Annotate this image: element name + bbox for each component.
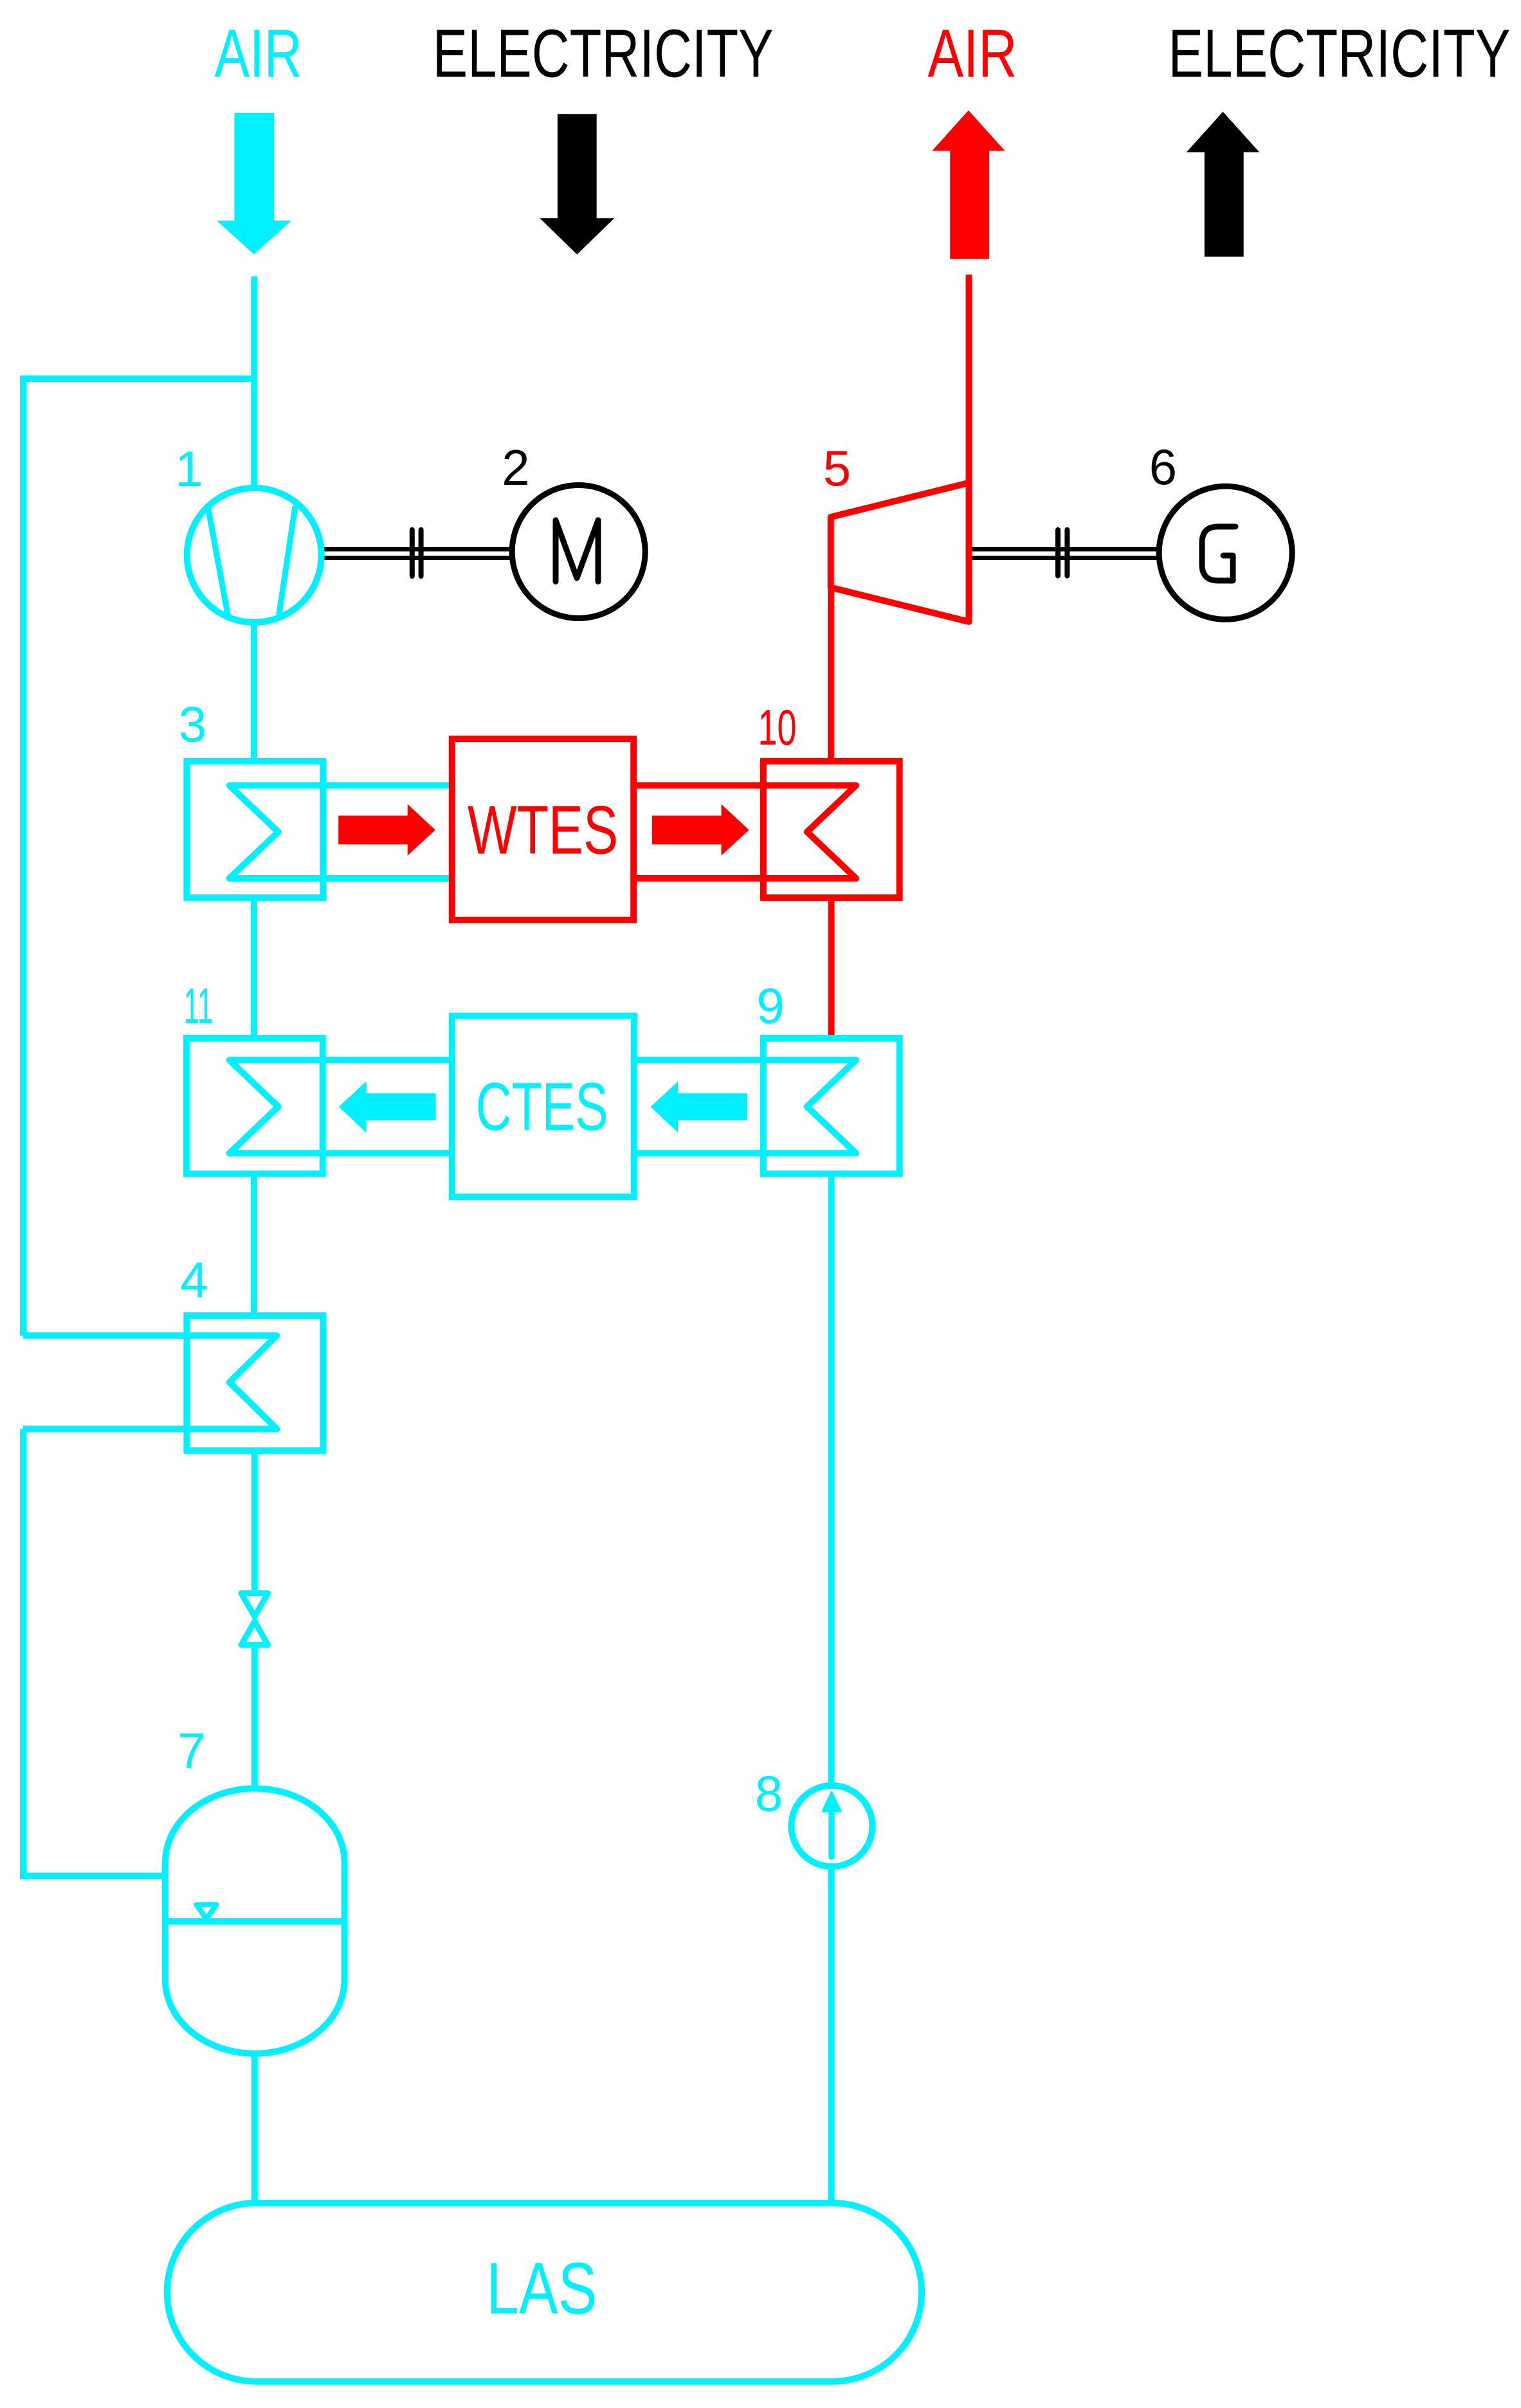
shaft turbine 5 to generator 6 (double line) — [969, 549, 1161, 558]
wire turbine 5 outlet down to heat exchanger 10 — [828, 585, 834, 765]
svg-text:ELECTRICITY: ELECTRICITY — [1169, 16, 1511, 92]
LAS storage tank — [167, 2203, 922, 2382]
separator 7 (vessel) — [165, 1789, 345, 2054]
svg-text:1: 1 — [175, 440, 203, 497]
heat exchanger 11 (box) — [187, 1038, 323, 1174]
WTES storage block — [452, 739, 633, 920]
wire red riser from turbine 5 up to AIR out arrow — [966, 275, 972, 489]
heat exchanger 9 coil (flag + bars to CTES) — [633, 1060, 856, 1154]
motor 2 (circle) — [512, 485, 645, 619]
arrow cold flow CTES to 11 (cyan, left) — [339, 1082, 435, 1133]
arrow electricity in (black, down) — [540, 114, 614, 255]
wire heat exchanger 3 to heat exchanger 11 — [251, 894, 257, 1042]
svg-text:10: 10 — [758, 699, 797, 756]
wire heat exchanger 4 to valve — [251, 1447, 258, 1590]
wire valve to separator 7 — [251, 1648, 258, 1794]
throttle valve (bow-tie, upper triangle) — [241, 1593, 268, 1616]
coupling compressor-motor (two bars) — [412, 530, 421, 576]
heat exchanger 11 coil (flag + bars to CTES) — [230, 1060, 452, 1154]
generator 6 (circle) — [1159, 486, 1292, 619]
arrow air out (red, up) — [932, 111, 1005, 259]
svg-text:8: 8 — [755, 1765, 783, 1822]
heat exchanger 10 coil (flag + bars to WTES) — [633, 786, 856, 879]
svg-text:AIR: AIR — [215, 16, 302, 92]
coupling turbine-generator (two bars) — [1058, 530, 1067, 576]
svg-text:2: 2 — [502, 439, 529, 496]
compressor 1 (circle with converging vanes) — [187, 488, 322, 622]
wire heat exchanger 9 to pump 8 — [828, 1170, 835, 1791]
svg-text:3: 3 — [179, 696, 206, 752]
svg-text:LAS: LAS — [486, 2248, 597, 2329]
wire air inlet down to compressor 1 — [251, 276, 257, 492]
wire compressor 1 outlet to heat exchanger 3 — [251, 619, 257, 765]
heat exchanger 3 (box) — [187, 761, 323, 898]
liquid level line in separator 7 — [163, 1918, 347, 1924]
throttle valve (bow-tie, lower triangle) — [241, 1622, 268, 1645]
wire separator 7 to LAS tank — [251, 2051, 258, 2205]
wire recirculation branch from node (395,589) to left and down — [23, 379, 254, 1335]
svg-text:9: 9 — [756, 977, 784, 1034]
svg-text:6: 6 — [1149, 439, 1177, 495]
wire heat exchanger 10 to heat exchanger 9 (red) — [828, 894, 835, 1040]
svg-text:ELECTRICITY: ELECTRICITY — [433, 16, 774, 92]
heat exchanger 9 (box) — [763, 1038, 900, 1174]
svg-text:WTES: WTES — [468, 791, 618, 868]
arrow cold flow 9 to CTES (cyan, left) — [651, 1082, 747, 1133]
arrow heat flow WTES to 10 (red, right) — [652, 804, 749, 856]
letter G — [1202, 527, 1235, 581]
heat exchanger 3 coil (flag + bars to WTES) — [230, 786, 452, 879]
arrow air in (cyan, down) — [217, 113, 291, 255]
svg-text:11: 11 — [184, 977, 214, 1034]
svg-text:4: 4 — [180, 1251, 208, 1308]
svg-text:AIR: AIR — [928, 16, 1017, 92]
arrow heat flow 3 to WTES (red, right) — [338, 804, 435, 856]
shaft compressor 1 to motor 2 (double line) — [322, 549, 513, 558]
arrow electricity out (black, up) — [1187, 112, 1259, 257]
svg-text:CTES: CTES — [476, 1069, 608, 1145]
turbine 5 (trapezoid) — [831, 483, 969, 622]
wire pump 8 to LAS tank — [828, 1861, 835, 2205]
heat exchanger 4 coil (flag + bars to left recirculation line) — [23, 1335, 277, 1429]
heat exchanger 10 (box) — [763, 761, 900, 898]
CTES storage block — [452, 1016, 634, 1197]
svg-text:7: 7 — [178, 1723, 205, 1779]
pump 8 (circle with up arrow) — [791, 1786, 872, 1867]
wire vapour return: left column down to separator 7 side inlet — [23, 1429, 168, 1876]
letter M — [556, 520, 598, 582]
svg-text:5: 5 — [823, 440, 851, 496]
heat exchanger 4 (box) — [187, 1316, 323, 1451]
level indicator triangle — [196, 1905, 216, 1919]
wire heat exchanger 11 to heat exchanger 4 — [251, 1170, 257, 1318]
